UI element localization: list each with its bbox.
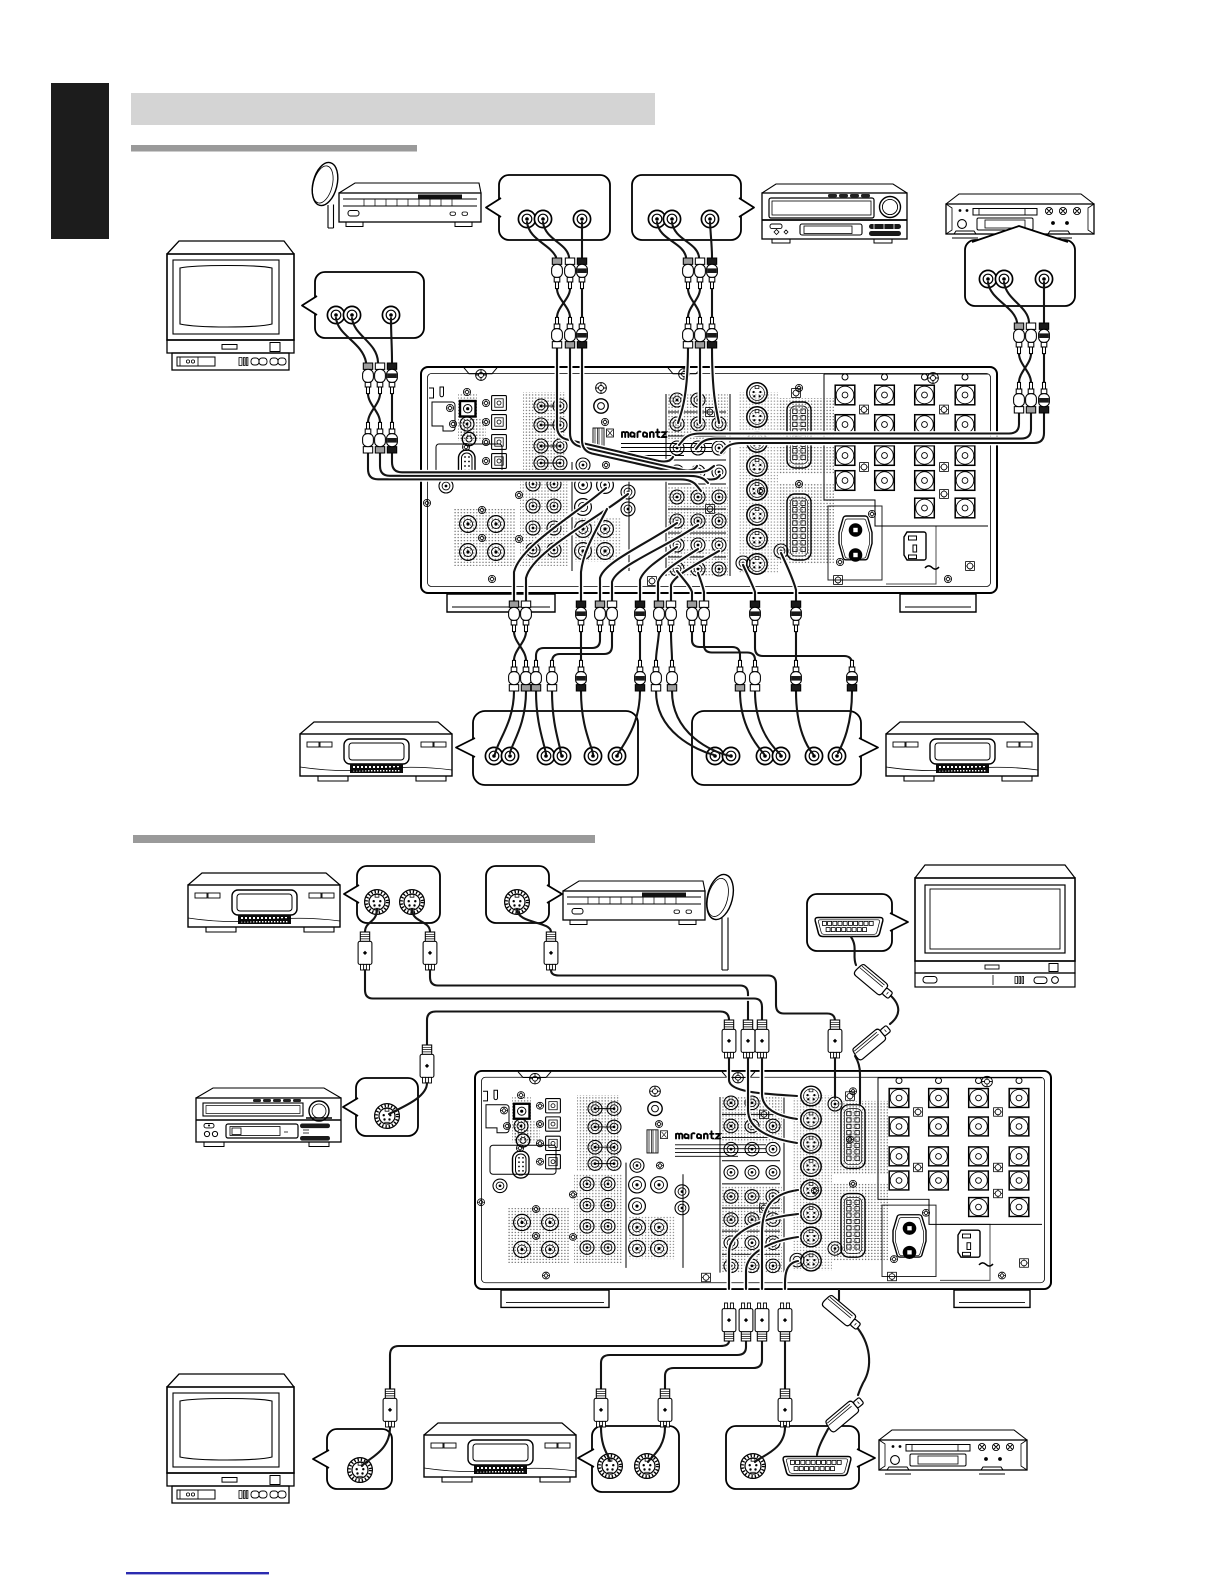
wire: panel2 top internal curves [729, 1058, 797, 1096]
wire: callout4 twist [368, 394, 392, 423]
satellite dish 1 [308, 160, 342, 228]
s-video plug above DVD callout [420, 1045, 434, 1083]
receiver back panel 2 [475, 1071, 1051, 1307]
gray title bar [131, 93, 655, 125]
rca plugs callout2 cable [683, 258, 694, 289]
wire: run VCR3-out to panel2 (x835) [551, 970, 835, 1021]
callout 2 (MD deck jacks) [632, 175, 754, 240]
callout F (VCR4 s-video jacks) [578, 1426, 679, 1492]
wire: callout1 jack leads [527, 222, 582, 257]
wire: callout2 into panel [678, 348, 719, 423]
wire: callout1 into panel diagonals [557, 348, 673, 462]
wire: callout2 twist [688, 289, 712, 318]
callout 6 (VCR2 jacks) [692, 711, 878, 785]
scart plug bottom pair [821, 1294, 863, 1332]
satellite dish 2 [702, 872, 737, 970]
wire: callout3 jack leads [988, 282, 1044, 322]
TV 2 (wide) [915, 865, 1075, 987]
rca plugs bottom row upper [509, 601, 520, 632]
callout E (TV3 s-video jack) [313, 1429, 392, 1489]
rca plugs bottom row lower [509, 660, 520, 691]
wire: lower plugs to callout6 jacks [656, 691, 730, 756]
wire: scart adapter cable bottom [839, 1289, 869, 1395]
CD player 1 [946, 194, 1094, 238]
callout B (sat s-video jack) [486, 866, 562, 923]
wire: bottom interconnects [514, 632, 526, 661]
blue footer line [126, 1572, 269, 1574]
wire: DVD plug to jack lead [389, 1083, 427, 1114]
black sidebar tab [51, 83, 109, 239]
s-video plugs above bottom callouts [383, 1389, 397, 1427]
s-video plugs below panel2 [722, 1303, 736, 1341]
satellite receiver deck 2 [563, 881, 705, 925]
wire: run sat to panel2 (x762) [365, 970, 762, 1020]
wire: panel2 bottom internal curves [729, 1214, 798, 1289]
VCR 2 [886, 722, 1038, 781]
callout G (CD2 s-video + scart) [726, 1426, 875, 1489]
wire: callout3 long runs into panel [679, 413, 1019, 445]
VCR 3 [188, 873, 340, 932]
callout D (DVD s-video jack) [343, 1078, 418, 1136]
wire: bottom runs to devices [390, 1341, 729, 1389]
wire: callout4 TV runs into panel [368, 453, 701, 491]
scart plug top pair [853, 963, 895, 1001]
wire: callout3 twist [1019, 354, 1044, 383]
wire: run VCR3-in to panel2 (x748) [430, 970, 748, 1020]
jack at x835 line end [828, 1097, 842, 1111]
wire: callout C scart lead [851, 937, 856, 965]
TV 1 [167, 241, 294, 370]
wire: callout4 jack leads [336, 318, 392, 362]
callout 5 (VCR1 jacks) [456, 711, 638, 785]
wire: callout A jack leads [365, 909, 430, 932]
wire: callout1 twist [557, 289, 582, 318]
VCR 1 [300, 722, 452, 781]
wire: fan diagonals inside panel [514, 488, 606, 601]
wire: lower plugs to callout5 jacks [495, 691, 526, 754]
wire: scart line into panel2 [855, 1056, 860, 1104]
callout C (TV scart) [807, 894, 908, 951]
VCR 4 [424, 1423, 576, 1482]
TV 3 [167, 1374, 294, 1503]
MD recorder [762, 184, 907, 243]
rca plugs callout3 cable [1014, 323, 1025, 354]
wire: callout B jack lead [517, 909, 551, 932]
callout 4 (TV jacks) [302, 272, 424, 338]
DVD/LD player [196, 1088, 341, 1147]
callout A (VCR3 s-video jacks) [344, 866, 440, 923]
section 2 sub header bar [133, 835, 595, 843]
wire: run DVD to panel2 (x729) [427, 1012, 729, 1046]
CD player 2 [879, 1430, 1027, 1474]
wire: scart adapter cable top [890, 995, 898, 1024]
rca plugs callout1 cable [552, 258, 563, 289]
receiver back panel 1 [421, 367, 997, 612]
satellite receiver deck 1 [339, 183, 481, 227]
callout 1 (sat receiver jacks) [486, 175, 610, 240]
rca plugs callout4 cable [363, 363, 374, 394]
wire: plug leads into bottom callouts [362, 1427, 390, 1466]
s-video plugs at panel2 top [722, 1020, 736, 1058]
callout 3 (CD player jacks) [965, 226, 1075, 306]
section 1 sub header bar [131, 145, 417, 152]
wire: callout2 jack leads [657, 222, 712, 257]
s-video plugs top row [358, 932, 372, 970]
